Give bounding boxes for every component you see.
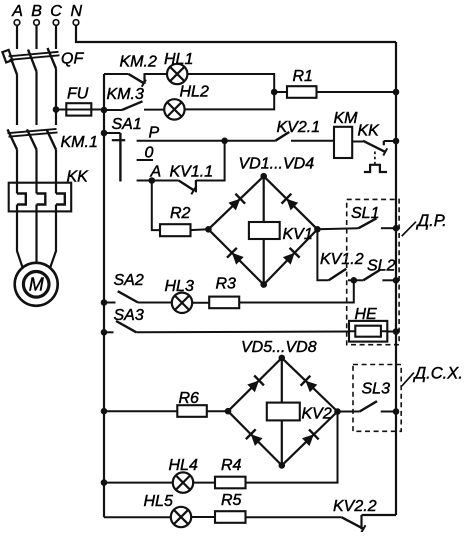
dashed enclosure D.S.H. xyxy=(353,365,401,432)
relay coil KV2 xyxy=(267,403,332,423)
neutral terminal N xyxy=(71,3,83,25)
left control bus xyxy=(103,74,105,517)
wire R1 to right bus xyxy=(317,91,397,93)
resistor R5 xyxy=(215,492,246,523)
svg-text:B: B xyxy=(31,3,42,20)
motor M xyxy=(15,263,58,306)
wire HL4 to R4 xyxy=(193,482,215,484)
resistor R4 xyxy=(215,457,246,488)
contact KM.2 (NC) xyxy=(120,54,157,87)
wire bridge2 DC- xyxy=(281,420,283,465)
contact SA2 (NO mirrored) xyxy=(104,272,144,303)
wire bus to KM.3 xyxy=(104,109,122,111)
contact SL1 (NO) xyxy=(351,205,379,228)
lamp HL2 xyxy=(164,84,209,120)
wire KV2.2 to right bus corner xyxy=(362,514,397,516)
wire node to R1 xyxy=(274,91,287,93)
svg-text:KM.1: KM.1 xyxy=(61,134,98,151)
contact KV1.2 (NO) xyxy=(320,251,364,281)
callout line D.R. xyxy=(402,222,416,236)
node bridge1 bottom xyxy=(260,281,267,288)
svg-text:KV1.2: KV1.2 xyxy=(320,251,364,268)
wire P line to KV2.1 xyxy=(225,140,276,142)
fuse FU xyxy=(66,86,91,116)
svg-text:SA1: SA1 xyxy=(112,116,142,133)
node bridge1 top xyxy=(260,173,267,180)
svg-text:FU: FU xyxy=(67,86,89,103)
node HE right bus xyxy=(393,328,400,335)
wire A node down to R2 xyxy=(152,181,160,231)
svg-text:QF: QF xyxy=(61,51,84,68)
phase terminal C xyxy=(50,3,62,49)
wire SA2 to HL3 xyxy=(138,302,172,304)
node SA2 tap xyxy=(101,299,108,306)
svg-text:R2: R2 xyxy=(170,205,191,222)
svg-text:N: N xyxy=(71,3,83,20)
heater HE xyxy=(349,306,387,342)
lamp HL5 xyxy=(144,493,192,527)
node HL1/HL2 join xyxy=(271,89,278,96)
wire KV1.2 to SL2 node xyxy=(348,279,354,281)
resistor R3 xyxy=(209,276,239,309)
SA1 position 0 stub xyxy=(137,145,154,162)
relay coil KM xyxy=(334,110,359,158)
contact KV1.1 (NC) xyxy=(170,163,214,194)
wire A node to KV1.1 xyxy=(152,180,179,182)
diode VD7 arm xyxy=(228,411,282,465)
wire KV1.1 up to P line xyxy=(196,141,225,181)
node bridge1 right xyxy=(314,226,321,233)
svg-text:P: P xyxy=(149,124,160,141)
svg-text:KK: KK xyxy=(358,123,381,140)
SA1 position A line xyxy=(137,163,162,180)
lamp HL1 xyxy=(164,51,193,84)
diode VD6 arm xyxy=(282,358,338,412)
wire pole B KK-M xyxy=(35,205,37,263)
node bridge2 right xyxy=(334,408,341,415)
svg-text:HL5: HL5 xyxy=(144,493,173,510)
wire pole A QF-KM1 xyxy=(16,75,18,126)
wire FU to bus xyxy=(91,109,104,111)
wire bus corner to HL5 xyxy=(104,516,171,518)
wire R6 to bridge2 left xyxy=(207,410,228,412)
svg-text:0: 0 xyxy=(145,145,154,162)
wire KM coil to KK contact xyxy=(352,141,363,143)
svg-text:SL3: SL3 xyxy=(362,381,391,398)
wire SL1 to right bus xyxy=(381,227,396,229)
node R6 tap xyxy=(101,408,108,415)
contact SL3 (NO) xyxy=(360,381,390,412)
node SL2 branch xyxy=(351,277,358,284)
lamp HL4 xyxy=(169,457,198,493)
svg-text:KV1: KV1 xyxy=(283,226,313,243)
svg-text:SL2: SL2 xyxy=(367,258,396,275)
label D.R. xyxy=(416,212,447,230)
svg-text:VD5...VD8: VD5...VD8 xyxy=(241,339,317,356)
svg-text:KM: KM xyxy=(334,110,359,127)
svg-text:KK: KK xyxy=(67,169,90,186)
svg-text:M: M xyxy=(29,275,44,295)
thermal relay KK heaters xyxy=(9,169,89,212)
svg-text:HL1: HL1 xyxy=(164,51,193,68)
svg-text:HL4: HL4 xyxy=(169,457,198,474)
dashed enclosure D.R. xyxy=(347,199,399,344)
wire bridge2 DC+ xyxy=(281,358,283,403)
wire pole B KM1-KK xyxy=(35,150,37,194)
resistor R6 xyxy=(177,390,207,417)
wire HL3 to R3 xyxy=(192,302,209,304)
contact KM.3 (NO) xyxy=(107,86,144,110)
svg-text:R1: R1 xyxy=(293,68,313,85)
svg-text:VD1...VD4: VD1...VD4 xyxy=(239,156,315,173)
wire bridge1 right down to KV1.2 xyxy=(317,229,328,280)
wire pole C KK-M xyxy=(50,205,56,268)
circuit breaker QF xyxy=(2,48,84,75)
wire HL1 to R1 node xyxy=(187,74,274,92)
wire N to top rail xyxy=(76,25,396,42)
wire pole A KM1-KK xyxy=(16,150,18,194)
contactor KM.1 main contacts xyxy=(8,129,98,151)
node R1 right bus xyxy=(393,89,400,96)
svg-text:HE: HE xyxy=(355,306,378,323)
wire bus to HL4 xyxy=(104,482,173,484)
node KM.3 tap xyxy=(101,107,108,114)
svg-text:Д.Р.: Д.Р. xyxy=(416,212,447,230)
node A branch xyxy=(149,177,156,184)
diode VD2 arm xyxy=(264,176,318,229)
wire R3 to SL2 node xyxy=(239,280,354,302)
contact KK (NC thermal) xyxy=(358,123,388,156)
node SL1 right bus xyxy=(393,225,400,232)
svg-text:KV1.1: KV1.1 xyxy=(170,163,214,180)
wire R2 to bridge left xyxy=(191,228,209,231)
wire R4 to bridge2 right xyxy=(246,412,338,483)
svg-text:A: A xyxy=(11,3,23,20)
resistor R1 xyxy=(287,68,317,98)
wire SL3 to right bus xyxy=(381,411,396,413)
wire HL5 to R5 xyxy=(191,516,215,518)
svg-text:KV2.1: KV2.1 xyxy=(277,119,321,136)
SA1 position P line xyxy=(137,124,225,141)
label VD5...VD8 xyxy=(241,339,317,356)
node bridge2 top xyxy=(279,355,286,362)
svg-text:R4: R4 xyxy=(221,457,242,474)
node SL2 right bus xyxy=(393,277,400,284)
svg-text:Д.С.Х.: Д.С.Х. xyxy=(413,365,463,383)
wire pole C KM1-KK xyxy=(55,150,57,194)
contact SL2 (NO) xyxy=(354,258,396,281)
phase terminal A xyxy=(11,3,23,49)
node SA3 tap xyxy=(101,329,108,336)
wire pole A KK-M xyxy=(17,205,23,268)
svg-text:SA3: SA3 xyxy=(114,307,144,324)
svg-text:R3: R3 xyxy=(216,276,237,293)
svg-text:C: C xyxy=(50,3,62,20)
wire KM.3 to HL2 xyxy=(144,109,164,111)
contact KV2.1 (NO) xyxy=(275,119,320,141)
diode VD5 arm xyxy=(228,358,282,411)
node FU tap xyxy=(53,106,60,113)
svg-text:KV2.2: KV2.2 xyxy=(333,498,377,515)
KK manual return symbol xyxy=(364,152,387,173)
lamp HL3 xyxy=(165,278,194,313)
wire to FU xyxy=(56,109,66,111)
label VD1...VD4 xyxy=(239,156,315,173)
wire R5 to KV2.2 xyxy=(246,516,342,518)
node P line junction xyxy=(221,138,228,145)
right neutral bus xyxy=(395,42,397,515)
wire bridge1 DC- xyxy=(263,239,265,285)
switch SA1 xyxy=(104,116,142,182)
phase terminal B xyxy=(31,3,42,49)
node KK right bus xyxy=(393,138,400,145)
wire KK to right bus xyxy=(384,140,396,142)
node HL4 tap xyxy=(101,479,108,486)
label D.S.H. xyxy=(413,365,463,383)
wire HL2 to R1 node xyxy=(185,92,275,109)
node bridge2 bottom xyxy=(279,462,286,469)
svg-text:KV2: KV2 xyxy=(302,406,332,423)
diode VD4 arm xyxy=(264,229,318,284)
svg-text:HL2: HL2 xyxy=(180,84,209,101)
wire KM.2 to HL1 xyxy=(145,73,168,75)
callout line D.S.H. xyxy=(402,373,414,387)
wire bridge2 right to SL3 xyxy=(338,411,360,413)
contact SA3 (NO mirrored) xyxy=(104,307,144,332)
node bridge2 left xyxy=(225,408,232,415)
diode VD1 arm xyxy=(208,176,263,229)
node SA1 tap xyxy=(101,130,108,137)
wire pole C QF-KM1 xyxy=(55,69,57,126)
node SL3 right bus xyxy=(393,408,400,415)
wire bus to R6 xyxy=(104,410,177,412)
wire HE to right bus xyxy=(387,331,396,333)
svg-text:R5: R5 xyxy=(221,492,242,509)
wire pole B QF-KM1 xyxy=(35,72,37,126)
wire SA3 to HE xyxy=(136,331,349,334)
diode VD8 arm xyxy=(282,412,338,466)
wire bus corner to KM.2 xyxy=(104,73,129,75)
svg-text:SA2: SA2 xyxy=(114,272,144,289)
wire KV2.1 to KM coil xyxy=(291,140,334,142)
contact KV2.2 (NC) xyxy=(333,498,377,532)
wire SL2 to right bus xyxy=(382,279,396,281)
svg-text:HL3: HL3 xyxy=(165,278,194,295)
resistor R2 xyxy=(160,205,191,236)
svg-text:R6: R6 xyxy=(179,390,200,407)
node bridge1 left xyxy=(205,226,212,233)
svg-text:KM.3: KM.3 xyxy=(107,86,144,103)
svg-text:KM.2: KM.2 xyxy=(120,54,157,71)
svg-text:SL1: SL1 xyxy=(351,205,379,222)
wire bridge1 DC+ xyxy=(263,176,265,222)
relay coil KV1 xyxy=(249,222,313,243)
wire bridge1 right to SL1 xyxy=(317,228,358,229)
diode VD3 arm xyxy=(208,229,263,284)
